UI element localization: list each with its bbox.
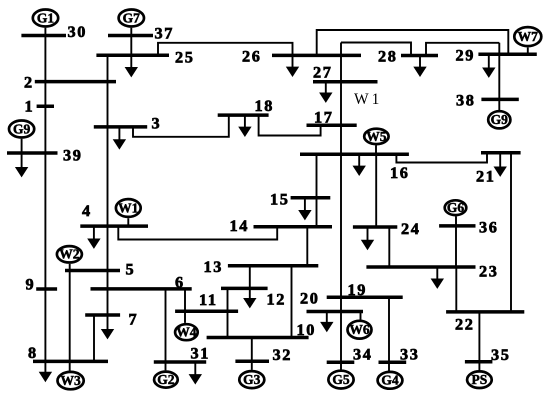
- bus 21: [481, 151, 521, 155]
- bus 13: [228, 264, 318, 268]
- wire 7-8: [93, 315, 95, 361]
- load at bus 3: [113, 127, 126, 150]
- generator G1 at bus 30: [33, 10, 58, 27]
- bus 26: [272, 54, 361, 58]
- wire 6-31-G2: [165, 289, 167, 371]
- wire W5-16: [375, 145, 377, 154]
- pumped storage PS at bus 35: [467, 371, 492, 388]
- bus 12: [221, 287, 268, 291]
- svg-text:4: 4: [82, 201, 92, 220]
- wire 26-29: [317, 30, 509, 55]
- bus 3: [94, 125, 147, 129]
- bus 2: [35, 80, 116, 84]
- load at bus 12: [243, 266, 256, 309]
- svg-text:22: 22: [455, 315, 474, 334]
- svg-text:16: 16: [390, 163, 409, 182]
- wire 19-33-G4: [388, 297, 390, 371]
- wire 16-21: [396, 153, 487, 163]
- wire 16-15-14: [316, 154, 318, 227]
- svg-text:8: 8: [28, 343, 38, 362]
- load at bus 29: [482, 54, 495, 78]
- svg-text:10: 10: [297, 320, 316, 339]
- load at bus 25: [125, 55, 138, 77]
- wire G9-39: [21, 139, 23, 153]
- load at bus 27: [319, 82, 332, 103]
- svg-text:35: 35: [491, 345, 510, 364]
- svg-text:G2: G2: [157, 372, 175, 387]
- wind farm W1 at bus 4: [116, 199, 141, 217]
- load at bus 18: [238, 115, 251, 137]
- wire 21-22: [510, 153, 512, 312]
- wind farm W4 at bus 11: [175, 324, 198, 340]
- bus 4: [80, 224, 148, 228]
- bus 19: [327, 296, 403, 300]
- bus 18: [218, 113, 269, 117]
- wire 13-10: [291, 266, 293, 338]
- svg-text:13: 13: [204, 257, 223, 276]
- svg-text:W3: W3: [60, 373, 81, 388]
- wire 14-13: [306, 227, 308, 266]
- svg-text:5: 5: [126, 260, 136, 279]
- bus 28: [401, 54, 438, 58]
- bus 15: [291, 196, 331, 200]
- load at bus 8: [39, 361, 52, 382]
- load at bus 21: [494, 153, 507, 177]
- bus 11: [175, 310, 238, 314]
- svg-text:3: 3: [152, 114, 162, 133]
- svg-text:12: 12: [267, 290, 286, 309]
- generator G9 at bus 39: [9, 121, 34, 138]
- bus 32: [235, 360, 269, 364]
- wire G7-37-25: [130, 28, 132, 55]
- svg-text:W7: W7: [518, 29, 539, 44]
- wire W1-4: [127, 218, 129, 226]
- svg-text:20: 20: [300, 289, 319, 308]
- bus 31: [154, 360, 206, 364]
- svg-text:34: 34: [353, 345, 372, 364]
- svg-text:W1: W1: [354, 91, 382, 108]
- wire 16-24: [375, 154, 377, 227]
- wind farm W3 at bus 8: [58, 372, 84, 389]
- wire 29-38-G9: [498, 43, 500, 110]
- svg-text:32: 32: [273, 345, 292, 364]
- svg-text:17: 17: [314, 108, 333, 127]
- svg-text:W1: W1: [118, 200, 139, 215]
- load at bus 15: [298, 198, 311, 221]
- svg-text:9: 9: [26, 275, 36, 294]
- bus 35: [465, 360, 493, 364]
- bus 39: [7, 151, 58, 155]
- bus 14: [254, 225, 333, 229]
- load at bus 28: [413, 56, 426, 78]
- generator G2 at bus 31: [154, 372, 178, 388]
- generator G7 at bus 37: [119, 10, 144, 27]
- load at bus 4: [87, 226, 100, 249]
- wire 10-32-G3: [251, 338, 253, 370]
- bus 17: [307, 124, 357, 128]
- svg-text:G9: G9: [491, 112, 509, 127]
- svg-text:7: 7: [129, 310, 139, 329]
- bus 10: [207, 336, 309, 340]
- svg-text:28: 28: [378, 47, 397, 66]
- bus 7: [85, 313, 120, 317]
- load at bus 7: [101, 315, 114, 339]
- svg-text:15: 15: [270, 190, 289, 209]
- wind farm W7 at bus 29: [514, 27, 541, 46]
- svg-text:21: 21: [476, 167, 495, 186]
- svg-text:19: 19: [348, 280, 367, 299]
- svg-text:27: 27: [313, 63, 332, 82]
- bus 29: [478, 53, 536, 57]
- svg-text:2: 2: [24, 73, 34, 92]
- svg-text:G3: G3: [243, 372, 261, 387]
- wire 3-18: [133, 115, 229, 137]
- generator G4 at bus 33: [378, 372, 403, 389]
- wire 26-27-17-16-19-20-34-G5: [340, 43, 342, 372]
- wire 18-17: [259, 115, 321, 135]
- bus 30: [21, 34, 66, 38]
- svg-text:W6: W6: [349, 322, 370, 337]
- generator G3 at bus 32: [239, 371, 264, 388]
- generator G9 at bus 38: [488, 111, 510, 128]
- svg-text:G5: G5: [332, 372, 350, 387]
- wire 28-29: [426, 43, 499, 56]
- bus 25: [96, 53, 169, 57]
- wire 25-26: [158, 43, 293, 56]
- load at bus 20: [320, 312, 333, 333]
- bus 38: [481, 98, 518, 102]
- svg-text:23: 23: [479, 262, 498, 281]
- svg-text:26: 26: [242, 47, 261, 66]
- wire 25-2-3-4-5-6-7: [107, 55, 109, 315]
- load at bus 31: [189, 362, 202, 385]
- load at bus 24: [361, 227, 374, 250]
- wind farm W5 at bus 16: [364, 129, 388, 144]
- svg-text:18: 18: [255, 96, 274, 115]
- wire 26-28: [341, 43, 411, 56]
- wind farm W2 at bus 5: [57, 246, 82, 262]
- svg-text:G9: G9: [13, 121, 31, 136]
- svg-text:G4: G4: [381, 373, 399, 388]
- bus 23: [366, 265, 475, 269]
- generator G5 at bus 34: [328, 371, 353, 389]
- wire W2-5-8-W3: [69, 264, 71, 371]
- wire W6-20: [360, 312, 362, 320]
- svg-text:11: 11: [199, 290, 218, 309]
- svg-text:36: 36: [479, 218, 498, 237]
- bus 16: [300, 152, 409, 156]
- wire W7-29: [527, 48, 529, 55]
- bus 20: [307, 310, 364, 314]
- svg-text:PS: PS: [472, 372, 488, 387]
- bus 37: [108, 34, 153, 38]
- bus 8: [33, 360, 108, 364]
- bus 27: [313, 80, 378, 84]
- load at bus 23: [431, 267, 444, 289]
- svg-text:39: 39: [63, 146, 82, 165]
- svg-text:33: 33: [400, 345, 419, 364]
- svg-text:G7: G7: [123, 10, 141, 25]
- bus 33: [379, 360, 407, 364]
- svg-text:38: 38: [456, 91, 475, 110]
- svg-text:31: 31: [191, 344, 210, 363]
- wire 12-11-10: [227, 288, 229, 337]
- bus 24: [353, 225, 397, 229]
- load at bus 39: [15, 153, 28, 177]
- wire G1-30-2-1-39-9-8: [44, 28, 46, 362]
- svg-text:G1: G1: [37, 10, 55, 25]
- svg-text:W5: W5: [366, 129, 387, 144]
- svg-text:G6: G6: [447, 200, 465, 215]
- bus 22: [446, 310, 524, 314]
- wire G6-36-23: [455, 216, 457, 267]
- bus 6: [91, 287, 192, 291]
- wind farm W6 at bus 20: [348, 321, 372, 339]
- bus 1: [37, 105, 54, 109]
- wire 6-11-W4: [184, 289, 186, 323]
- generator G6 at bus 36: [445, 200, 467, 215]
- svg-text:29: 29: [456, 46, 475, 65]
- bus 36: [439, 224, 475, 228]
- svg-text:24: 24: [401, 219, 420, 238]
- svg-text:14: 14: [230, 216, 249, 235]
- load at bus 26: [286, 55, 299, 77]
- svg-text:37: 37: [155, 24, 174, 43]
- svg-text:6: 6: [175, 273, 185, 292]
- svg-text:W2: W2: [59, 247, 80, 262]
- svg-text:1: 1: [25, 97, 35, 116]
- wire 4-14: [118, 226, 277, 239]
- wire 22-35-PS: [478, 312, 480, 370]
- bus 9: [36, 287, 57, 291]
- wire 23-24: [388, 227, 390, 267]
- bus 34: [327, 360, 355, 364]
- svg-text:25: 25: [175, 48, 194, 67]
- load at bus 16: [353, 154, 366, 176]
- svg-text:W4: W4: [176, 325, 197, 340]
- bus 5: [65, 269, 120, 273]
- svg-text:30: 30: [68, 22, 87, 41]
- wire 22-23: [455, 267, 457, 312]
